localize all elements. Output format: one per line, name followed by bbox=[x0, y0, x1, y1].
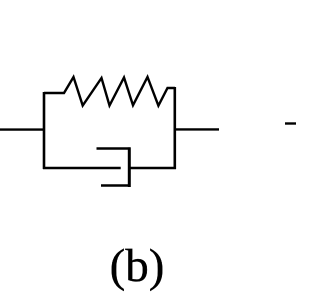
capacitor bracket element bottom arm bbox=[101, 184, 131, 186]
label (b) bbox=[6, 243, 268, 290]
wire right lead bbox=[175, 128, 219, 130]
resistor R (zigzag top branch) bbox=[44, 77, 175, 106]
wire right vertical of loop bbox=[174, 87, 177, 169]
capacitor bracket element top arm bbox=[97, 147, 131, 149]
wire bottom branch left segment bbox=[43, 167, 121, 169]
wire left vertical of loop bbox=[43, 92, 46, 169]
capacitor bracket element vertical plate bbox=[128, 147, 131, 187]
wire bottom branch right segment bbox=[130, 167, 176, 169]
wire fragment at right edge (adjacent subfigure) bbox=[285, 122, 296, 124]
wire left lead bbox=[0, 128, 44, 130]
